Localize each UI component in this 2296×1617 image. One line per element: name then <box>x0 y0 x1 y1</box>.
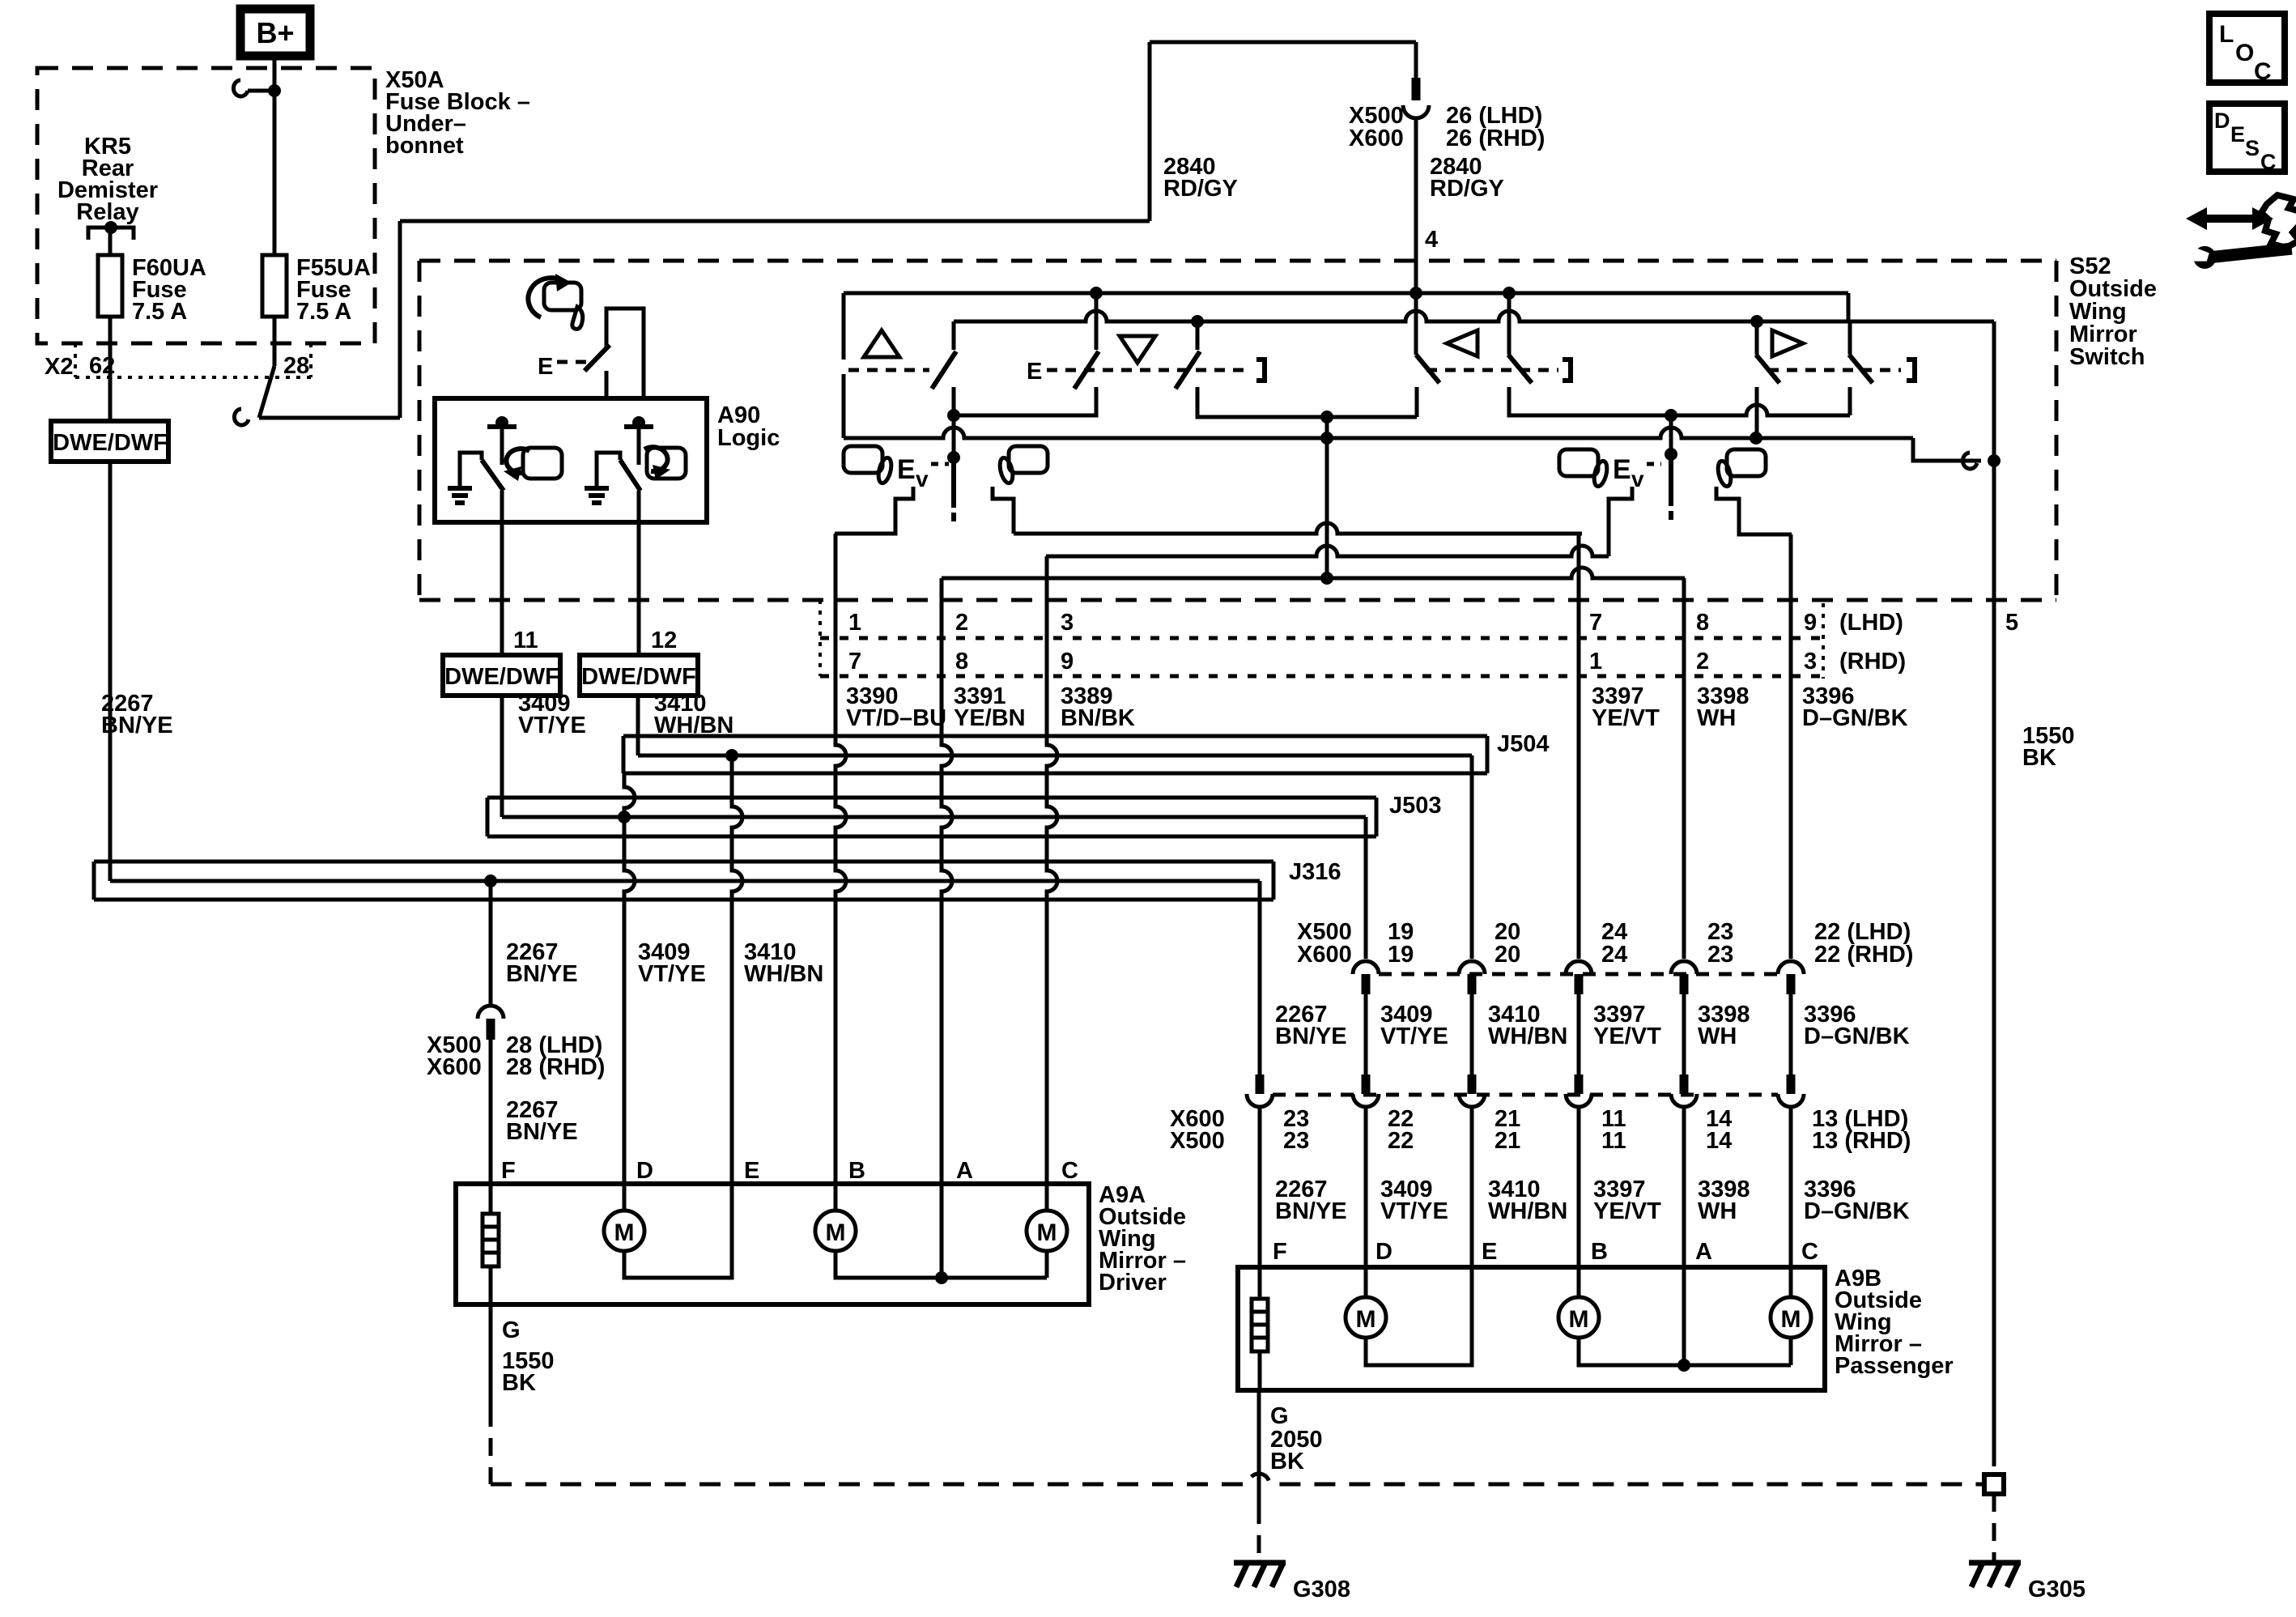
svg-text:YE/VT: YE/VT <box>1593 1198 1661 1224</box>
clip to 1550 BK vertical <box>1962 453 1977 469</box>
symbol triangle left <box>1447 330 1478 356</box>
mechanical link dashes right group <box>1768 368 1901 372</box>
svg-text:9: 9 <box>1804 610 1817 636</box>
svg-text:G305: G305 <box>2028 1577 2086 1602</box>
wire pin11 3409 down to J503 <box>500 696 504 817</box>
switch power-fold <box>606 309 644 398</box>
A90 right coil pin <box>624 424 653 429</box>
svg-text:A: A <box>1695 1239 1712 1265</box>
svg-text:VT/YE: VT/YE <box>638 961 706 987</box>
svg-text:O: O <box>2235 40 2254 66</box>
svg-text:28 (RHD): 28 (RHD) <box>506 1054 605 1080</box>
svg-text:D: D <box>636 1158 653 1184</box>
motor M fold A9B <box>1789 1267 1793 1297</box>
fuse F60UA <box>98 255 122 317</box>
svg-text:G: G <box>502 1317 521 1343</box>
symbol triangle right <box>1772 330 1803 356</box>
svg-text:B+: B+ <box>256 16 294 49</box>
svg-text:BN/BK: BN/BK <box>1061 705 1135 731</box>
power node B+ <box>240 9 310 56</box>
svg-text:BK: BK <box>1270 1449 1304 1474</box>
svg-text:BN/YE: BN/YE <box>1275 1198 1347 1224</box>
wire line feed to pins 2 and 8 <box>942 568 1685 578</box>
svg-text:21: 21 <box>1495 1128 1520 1154</box>
dashed ground bus to G305 <box>491 1474 1984 1484</box>
svg-text:3: 3 <box>1804 649 1817 674</box>
svg-text:M: M <box>1569 1306 1589 1333</box>
svg-text:F: F <box>1273 1239 1287 1265</box>
dashed wire to ground G308 <box>1257 1506 1261 1563</box>
svg-text:M: M <box>1356 1306 1376 1333</box>
svg-text:7.5 A: 7.5 A <box>132 299 187 325</box>
switch mirror-up contact stub sw1 <box>952 321 956 350</box>
svg-text:RD/GY: RD/GY <box>1163 176 1238 202</box>
switch S52 dashed outline <box>419 259 2056 263</box>
svg-text:C: C <box>2254 58 2272 85</box>
fuse F55UA <box>262 255 287 317</box>
svg-text:M: M <box>1781 1306 1801 1333</box>
wire 1550 BK pin 5 down <box>1992 321 1996 1449</box>
wire A90 pin 12 output <box>637 491 641 655</box>
A90 right switch to ground <box>597 453 620 488</box>
motor M horizontal A9A <box>834 1184 838 1211</box>
svg-text:24: 24 <box>1601 942 1627 968</box>
selector left Ev pivot dot <box>947 451 960 464</box>
motor M horizontal A9B <box>1577 1267 1581 1297</box>
svg-text:13 (RHD): 13 (RHD) <box>1812 1128 1911 1154</box>
svg-text:D–GN/BK: D–GN/BK <box>1804 1198 1910 1224</box>
wire 3397 pin7 down <box>1577 534 1581 959</box>
svg-text:7: 7 <box>1589 610 1602 636</box>
svg-text:BK: BK <box>502 1370 536 1396</box>
svg-text:VT/YE: VT/YE <box>1380 1198 1448 1224</box>
svg-text:DWE/DWF: DWE/DWF <box>444 664 559 690</box>
svg-text:VT/D–BU: VT/D–BU <box>846 705 946 731</box>
wire sw6 bottom to L3 <box>1755 387 1759 438</box>
dashed ground path from A9A <box>489 1409 493 1484</box>
wire relay to fuse F60UA <box>108 228 113 255</box>
svg-text:28: 28 <box>283 353 309 379</box>
svg-text:8: 8 <box>955 649 968 674</box>
motor M fold A9A <box>1045 1184 1049 1211</box>
mechanical link E dashes left group <box>848 368 929 372</box>
svg-text:G308: G308 <box>1293 1577 1350 1602</box>
wire 3398 pin8 down <box>1682 578 1686 959</box>
switch sw6 stub from rail B <box>1755 321 1759 355</box>
svg-text:J503: J503 <box>1389 793 1442 819</box>
connector row X600/X500 23-13 <box>1256 1074 1265 1094</box>
mirror assembly A9A box <box>456 1184 1089 1304</box>
svg-text:26 (RHD): 26 (RHD) <box>1446 126 1545 151</box>
wire sw1+sw2 common down to selector <box>952 415 956 457</box>
svg-text:WH/BN: WH/BN <box>1488 1023 1567 1049</box>
svg-text:(LHD): (LHD) <box>1839 610 1903 636</box>
svg-text:WH/BN: WH/BN <box>744 961 823 987</box>
symbol triangle up <box>864 330 899 357</box>
splice J504 3410 WH/BN <box>622 736 626 773</box>
svg-text:BN/YE: BN/YE <box>506 961 578 987</box>
wire sw4 bottom stub <box>1415 387 1419 417</box>
wire 2267 driver drop to X500-28 <box>489 881 493 1004</box>
svg-text:5: 5 <box>2005 610 2018 636</box>
svg-text:WH: WH <box>1697 705 1736 731</box>
wire rail L1 left bracket <box>842 293 846 360</box>
svg-text:X2: X2 <box>45 354 73 380</box>
splice J316 2267 BN/YE <box>92 862 96 900</box>
svg-text:v: v <box>916 466 929 491</box>
wire sw5 bottom jumper <box>1509 387 1671 415</box>
wire 3391 pin2 to A9A pin A <box>942 578 952 1184</box>
svg-text:BN/YE: BN/YE <box>1275 1023 1347 1049</box>
wire fuse F60UA to DWE/DWF <box>108 317 113 421</box>
svg-text:DWE/DWF: DWE/DWF <box>581 664 696 690</box>
svg-text:14: 14 <box>1706 1128 1732 1154</box>
svg-text:YE/BN: YE/BN <box>954 705 1026 731</box>
svg-text:YE/VT: YE/VT <box>1592 705 1660 731</box>
svg-text:E: E <box>897 454 916 485</box>
selector right mirror icon right <box>1727 449 1766 476</box>
svg-text:bonnet: bonnet <box>385 133 464 159</box>
wire 2050 BK from A9B <box>1257 1390 1261 1506</box>
svg-text:22: 22 <box>1388 1128 1414 1154</box>
svg-text:19: 19 <box>1388 942 1414 968</box>
svg-text:D: D <box>2214 109 2230 133</box>
svg-text:20: 20 <box>1495 942 1520 968</box>
connector row X500/X600 dashed lines <box>818 600 822 676</box>
icon power-fold mirror <box>544 283 581 310</box>
svg-text:2: 2 <box>1696 649 1709 674</box>
dashed to ground G305 <box>1992 1494 1996 1563</box>
wire rail L3 common <box>844 428 1913 438</box>
svg-text:C: C <box>1801 1239 1818 1265</box>
wire 2267 BN/YE from DWE/DWF down <box>108 462 113 881</box>
svg-text:X600: X600 <box>1349 126 1404 151</box>
switch sw3 blade <box>1176 351 1200 389</box>
icon LOC box <box>2209 14 2285 83</box>
switch sw7 stub from rail junction <box>1848 321 1852 355</box>
A90 left switch to ground <box>460 453 482 488</box>
svg-text:YE/VT: YE/VT <box>1593 1023 1661 1049</box>
connector X500/X600 pin 26 <box>1412 78 1421 100</box>
heater element A9B <box>1258 1267 1262 1390</box>
svg-text:9: 9 <box>1061 649 1074 674</box>
wire sw7 bottom jumper <box>1848 387 1852 415</box>
svg-text:WH: WH <box>1698 1023 1737 1049</box>
wire 3410 drop to A9A pin E <box>732 755 742 1184</box>
svg-text:E: E <box>1613 454 1631 485</box>
wire pin12 3410 down to J504 <box>636 696 640 755</box>
svg-text:B: B <box>848 1158 865 1184</box>
svg-text:Driver: Driver <box>1099 1270 1167 1296</box>
selector right common <box>1669 415 1673 454</box>
switch mirror-up blade sw1 <box>932 351 956 389</box>
wire 1550 BK from A9A <box>489 1304 493 1409</box>
svg-text:E: E <box>538 354 553 380</box>
svg-text:F: F <box>501 1158 516 1184</box>
svg-text:RD/GY: RD/GY <box>1430 176 1504 202</box>
svg-text:Passenger: Passenger <box>1835 1353 1954 1379</box>
switch sw2 stub from L1 <box>1095 293 1099 350</box>
wire rail B to pin 5 <box>954 311 1994 321</box>
mechanical link dashes mid group <box>1426 368 1558 372</box>
svg-text:L: L <box>2219 21 2234 48</box>
wire 3409 passenger drop <box>1364 817 1368 959</box>
wire B+ feed down to fuse F55UA <box>273 56 277 255</box>
A90 left coil pin <box>487 424 517 429</box>
svg-text:BN/YE: BN/YE <box>101 713 173 738</box>
ground G308 <box>1234 1560 1286 1566</box>
boxes DWE/DWF pins 11 12 <box>443 655 560 696</box>
svg-text:8: 8 <box>1696 610 1709 636</box>
svg-text:1: 1 <box>848 610 861 636</box>
svg-text:1: 1 <box>1589 649 1602 674</box>
wire rail L1 top feed <box>844 291 1848 296</box>
selector left throw contacts <box>835 487 913 534</box>
connector X500-28 <box>478 1006 504 1019</box>
switch sw4 stub feed 2840 <box>1414 293 1418 355</box>
clip connector on B+ feed <box>248 89 274 93</box>
svg-text:7: 7 <box>848 649 861 674</box>
splice J503 3409 VT/YE <box>486 798 490 836</box>
svg-text:DWE/DWF: DWE/DWF <box>53 430 168 456</box>
mirror assembly A9B box <box>1238 1267 1825 1390</box>
switch assembly feed drop from L1 corner <box>1847 293 1851 321</box>
switch sw6 blade <box>1756 355 1779 383</box>
svg-text:Logic: Logic <box>717 425 780 451</box>
wire 3390 pin1 to A9A pin B <box>835 534 846 1184</box>
svg-text:23: 23 <box>1707 942 1733 968</box>
svg-text:D: D <box>1375 1239 1392 1265</box>
svg-text:3: 3 <box>1061 610 1074 636</box>
svg-text:VT/YE: VT/YE <box>518 713 586 738</box>
switch sw2 blade <box>1074 351 1099 389</box>
svg-text:M: M <box>614 1219 635 1246</box>
svg-text:Relay: Relay <box>76 199 138 225</box>
svg-text:X600: X600 <box>427 1054 482 1080</box>
junction square G305 splice <box>1984 1474 2004 1494</box>
svg-text:E: E <box>2230 122 2245 147</box>
svg-text:D–GN/BK: D–GN/BK <box>1802 705 1908 731</box>
svg-text:Switch: Switch <box>2069 344 2145 370</box>
svg-text:G: G <box>1270 1403 1289 1429</box>
wire 2267 passenger drop <box>1258 881 1262 1074</box>
selector left mirror icon right <box>1009 446 1048 473</box>
svg-text:X500: X500 <box>1170 1128 1225 1154</box>
svg-text:VT/YE: VT/YE <box>1380 1023 1448 1049</box>
logic module A90 box <box>435 398 707 522</box>
svg-text:J316: J316 <box>1289 859 1341 885</box>
symbol triangle down <box>1120 336 1155 363</box>
svg-text:A: A <box>956 1158 973 1184</box>
wire common drop to line 714 <box>1325 417 1329 578</box>
motor M vertical A9B <box>1364 1267 1368 1297</box>
wire 3396 pin9 down <box>1789 534 1793 959</box>
svg-text:WH/BN: WH/BN <box>1488 1198 1567 1224</box>
icon arrows and wrench <box>2186 207 2273 230</box>
svg-text:D–GN/BK: D–GN/BK <box>1804 1023 1910 1049</box>
wire sw3 bottom jumper <box>1197 387 1417 417</box>
box DWE/DWF left <box>51 421 168 462</box>
motor M vertical A9A <box>623 1184 627 1211</box>
switch sw7 blade <box>1849 355 1873 383</box>
svg-text:2: 2 <box>955 610 968 636</box>
wire line to pin 7 <box>1014 523 1582 534</box>
wire line to pin 3 and right throw <box>1046 546 1609 556</box>
svg-text:S: S <box>2245 136 2260 160</box>
switch sw4 blade <box>1416 355 1439 383</box>
svg-text:(RHD): (RHD) <box>1839 649 1906 674</box>
heater element A9A <box>489 1184 493 1304</box>
A90 left mirror icon with ccw arrow <box>523 448 562 479</box>
relay KR5 contact bracket <box>88 228 134 240</box>
svg-text:11: 11 <box>1601 1128 1626 1154</box>
wire sw1 bottom to selector common <box>952 387 956 415</box>
svg-text:B: B <box>1591 1239 1608 1265</box>
wire A90 pin 11 output <box>500 491 504 655</box>
svg-text:M: M <box>826 1219 846 1246</box>
switch sw3 stub from rail B <box>1196 321 1200 350</box>
svg-text:4: 4 <box>1425 227 1438 253</box>
svg-text:7.5 A: 7.5 A <box>296 299 351 325</box>
connector row X500/X600 19-22 <box>1353 961 1379 974</box>
svg-text:M: M <box>1037 1219 1057 1246</box>
icon DESC box <box>2209 104 2285 172</box>
wire 3409 drop to A9A pin D <box>624 773 635 1184</box>
svg-text:J504: J504 <box>1497 731 1550 757</box>
wire 3410 passenger drop <box>1470 755 1474 959</box>
dashed 1550 BK to junction square <box>1992 1449 1996 1474</box>
wire fuse F55UA through X2-28 with clip <box>273 317 277 366</box>
svg-text:BK: BK <box>2022 745 2056 771</box>
wires mid connector to bottom connector <box>1364 994 1368 1074</box>
svg-text:C: C <box>2260 150 2277 174</box>
ground G305 <box>1969 1560 2021 1566</box>
svg-text:BN/YE: BN/YE <box>506 1119 578 1145</box>
switch sw5 stub from L1 <box>1507 293 1512 355</box>
svg-text:22 (RHD): 22 (RHD) <box>1814 942 1913 968</box>
selector left mirror icon left <box>844 446 882 473</box>
svg-text:11: 11 <box>513 628 538 653</box>
selector right mirror icon left <box>1559 449 1598 476</box>
svg-text:12: 12 <box>651 628 677 653</box>
wire 2840 RD/GY top run <box>400 219 1150 223</box>
svg-text:E: E <box>744 1158 759 1184</box>
wire sw2 bottom jumper <box>954 387 1096 415</box>
fuse block X50A dashed outline <box>37 68 375 343</box>
svg-text:WH: WH <box>1698 1198 1737 1224</box>
svg-text:E: E <box>1027 359 1042 385</box>
switch sw5 blade <box>1508 355 1532 383</box>
svg-text:E: E <box>1482 1239 1497 1265</box>
A90 right mirror icon with cw arrow <box>647 448 686 479</box>
svg-text:X600: X600 <box>1297 942 1352 968</box>
wire 3389 pin3 to A9A pin C <box>1047 556 1057 1184</box>
svg-text:23: 23 <box>1283 1128 1309 1154</box>
svg-text:C: C <box>1061 1158 1078 1184</box>
selector right throw contacts <box>1609 487 1632 556</box>
wires bottom connector to A9B <box>1258 1108 1262 1267</box>
